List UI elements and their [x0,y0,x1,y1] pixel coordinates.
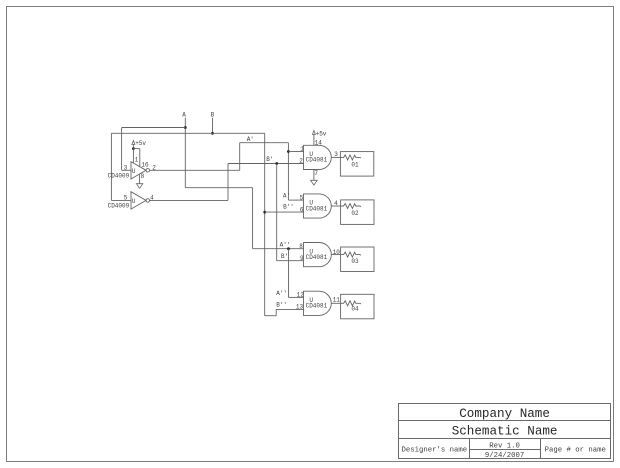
ground symbol (U3 pin 7) [311,180,318,185]
AND gate U5 (gate 4) CD4081 [304,291,332,315]
wire B' into U3 pin 2 [228,163,304,165]
svg-text:13: 13 [296,304,304,311]
svg-text:4: 4 [150,195,154,202]
wire B' vertical up [227,164,229,201]
wire A branch to U1 input (horizontal) [122,127,186,129]
wire U3 pin 7 to ground [313,170,315,181]
svg-text:B': B' [266,156,273,163]
svg-text:B'': B'' [276,302,287,309]
junction A'' branch to U5 pin 12 [287,247,290,250]
wire +5v to U1 pin 1 [132,149,134,163]
wire B horizontal [111,132,264,134]
svg-text:2: 2 [152,165,156,172]
wire A horizontal to A'' column [185,187,252,189]
resistor O4 [341,301,361,313]
wire +5v to U1 pin 16 [139,149,141,167]
svg-text:A'': A'' [280,242,291,249]
power +5v symbol (U1) [132,140,147,149]
resistor O2 [341,204,361,217]
wire A branch vertical to U1 pin 3 [121,128,123,171]
wire U3 pin 14 to +5v [313,134,315,145]
wire B'' into U5 pin 13 [276,308,303,310]
svg-text:1: 1 [135,156,139,163]
svg-text:5: 5 [300,194,304,201]
wire into U1 pin 3 [122,169,131,171]
output box O1 [340,152,373,177]
svg-text:1: 1 [300,146,304,153]
wire B' vertical down [276,164,278,261]
wire B'' jog up [275,309,277,315]
resistor O1 [340,155,360,169]
wire U gate output to O2 [331,205,340,207]
svg-text:CD4009: CD4009 [108,172,130,179]
svg-text:B'': B'' [283,203,294,210]
resistor O3 [341,252,361,265]
svg-text:A': A' [247,136,254,143]
svg-text:8: 8 [141,173,145,180]
wire A vertical drop [184,118,186,188]
svg-text:16: 16 [141,162,149,169]
wire A'' into U5 pin 12 [289,296,304,298]
svg-text:+5v: +5v [316,130,327,137]
svg-text:B: B [211,111,215,118]
svg-text:A'': A'' [276,290,287,297]
svg-text:U: U [132,168,136,175]
wire B' from U2 output [150,199,228,201]
svg-text:CD4081: CD4081 [306,205,328,212]
svg-text:11: 11 [333,297,341,304]
junction B [211,132,214,135]
svg-text:03: 03 [351,258,359,265]
svg-text:Rev 1.0: Rev 1.0 [489,443,520,451]
svg-text:A': A' [283,192,290,199]
output box O3 [341,247,374,272]
wire U gate output to O1 [331,156,340,158]
svg-text:04: 04 [351,306,359,313]
wire B vertical to U2 pin 5 [110,133,112,200]
wire B' into U4 pin 9 [277,260,304,262]
wire +5v branch [133,148,139,150]
svg-text:B': B' [281,253,288,260]
svg-text:8: 8 [299,243,303,250]
svg-text:02: 02 [351,210,359,217]
AND gate U3 (gate 2) CD4081 [304,194,332,218]
svg-text:12: 12 [297,292,305,299]
wire B'' jog bottom [265,315,277,317]
svg-text:CD4081: CD4081 [306,157,328,164]
svg-text:Designer's name: Designer's name [402,446,468,454]
wire A'' into U4 pin 8 [253,248,304,250]
svg-text:U: U [132,198,136,205]
inverter U1 CD4009 (top) [131,162,150,179]
wire A'' vertical [252,188,254,249]
inverter U2 CD4009 (bottom) [131,192,150,209]
wire B'' vertical column [264,133,266,315]
wire A' into U3 pin 1 [288,151,303,153]
wire into U2 pin 5 [111,199,131,201]
output box O4 [341,294,374,319]
junction A / branch to inverter U1 [184,126,187,129]
AND gate U4 (gate 3) CD4081 [304,243,332,267]
junction B' branch to U4 pin 9 [275,162,278,165]
output box O2 [341,200,374,225]
svg-text:3: 3 [124,164,128,171]
svg-text:6: 6 [300,206,304,213]
wire U gate output to O4 [331,302,340,304]
title block [399,404,611,460]
svg-text:7: 7 [314,170,318,177]
svg-text:9: 9 [300,255,304,262]
svg-text:2: 2 [299,158,303,165]
svg-text:14: 14 [315,139,323,146]
svg-text:01: 01 [351,162,359,169]
wire B'' into U3 pin 6 [265,211,304,213]
wire A' horizontal top [240,142,289,144]
svg-text:Page # or name: Page # or name [545,446,606,454]
wire U1 pin 8 to ground [139,174,141,184]
svg-text:A: A [182,111,186,118]
svg-text:Schematic Name: Schematic Name [452,425,558,439]
AND gate U3 (gate 1) CD4081 [304,145,332,169]
wire B vertical drop [212,118,214,134]
wire U gate output to O3 [331,254,340,256]
wire A' from U1 output [150,169,240,171]
svg-text:5: 5 [124,195,128,202]
wire A'' vertical to U5 pin 12 [288,249,290,298]
svg-text:+5v: +5v [135,140,146,147]
ground symbol (U1 pin 8) [136,184,142,189]
svg-text:CD4009: CD4009 [108,202,130,209]
svg-text:CD4081: CD4081 [306,254,328,261]
junction A' branch to U3... pin 1 [287,150,290,153]
wire A' vertical up [239,143,241,171]
svg-text:Company Name: Company Name [459,407,550,421]
power +5v symbol (U3 pin 14) [312,130,326,137]
svg-text:CD4081: CD4081 [306,303,328,310]
wire A' into U3 pin 5 [288,199,303,201]
junction +5v to U1 pins 1 and 16 [132,147,135,150]
wire A' vertical down [287,143,289,200]
svg-text:9/24/2007: 9/24/2007 [485,452,524,460]
junction B'' branch to U3 pin 6 [263,211,266,214]
